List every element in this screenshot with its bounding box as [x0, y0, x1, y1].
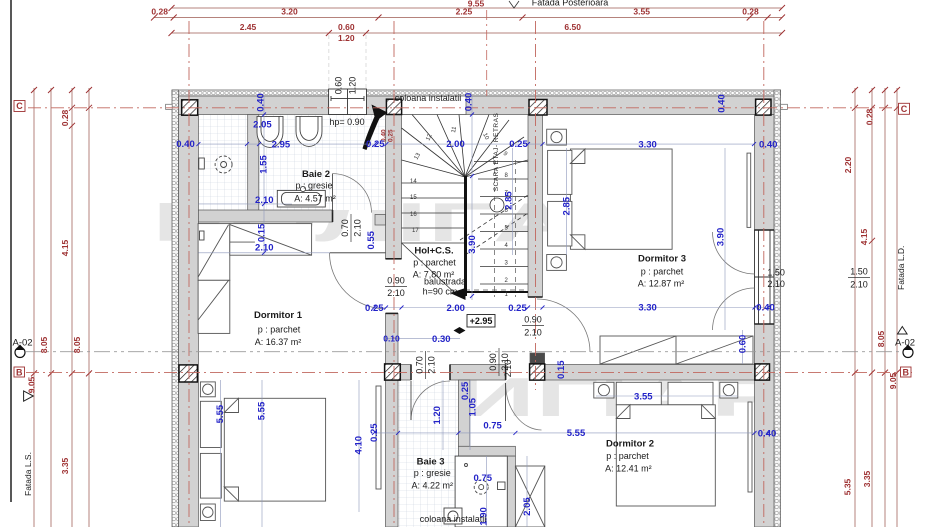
- svg-text:0.30: 0.30: [432, 334, 451, 345]
- svg-text:A-02: A-02: [895, 338, 915, 349]
- svg-text:1.20: 1.20: [432, 406, 443, 425]
- svg-text:Fatada L.D.: Fatada L.D.: [896, 246, 906, 290]
- svg-text:0.55: 0.55: [366, 230, 377, 249]
- svg-text:16: 16: [410, 212, 417, 218]
- svg-text:0.75: 0.75: [474, 473, 493, 484]
- svg-text:0.28: 0.28: [151, 7, 168, 17]
- svg-text:2.10: 2.10: [255, 195, 274, 206]
- svg-text:2.00: 2.00: [446, 139, 465, 150]
- svg-text:0.90: 0.90: [387, 276, 405, 286]
- svg-text:2.85: 2.85: [504, 191, 515, 210]
- svg-text:0.28: 0.28: [60, 109, 70, 126]
- svg-text:Hol+C.S.: Hol+C.S.: [414, 246, 453, 257]
- svg-text:1.05: 1.05: [468, 397, 479, 416]
- svg-text:0.70: 0.70: [415, 356, 425, 374]
- svg-text:A: 4.22 m²: A: 4.22 m²: [412, 480, 454, 490]
- svg-text:1.55: 1.55: [259, 155, 270, 174]
- svg-text:0.28: 0.28: [865, 108, 875, 125]
- svg-text:h=90 cm: h=90 cm: [423, 287, 458, 297]
- svg-text:0.15: 0.15: [257, 223, 268, 242]
- svg-text:0.25: 0.25: [365, 303, 384, 314]
- svg-text:0.25: 0.25: [388, 129, 395, 142]
- svg-text:5.55: 5.55: [567, 428, 586, 439]
- svg-text:3.30: 3.30: [638, 140, 657, 151]
- svg-text:Baie 3: Baie 3: [417, 457, 445, 468]
- svg-text:Dormitor 3: Dormitor 3: [638, 254, 686, 265]
- svg-text:2.10: 2.10: [387, 288, 405, 298]
- svg-text:14: 14: [410, 179, 417, 185]
- svg-text:p : parchet: p : parchet: [641, 267, 684, 277]
- svg-text:2.95: 2.95: [272, 140, 291, 151]
- svg-text:2.10: 2.10: [524, 328, 542, 338]
- svg-text:Dormitor 2: Dormitor 2: [606, 439, 654, 450]
- svg-text:2.10: 2.10: [503, 360, 513, 378]
- svg-text:5.35: 5.35: [843, 478, 853, 495]
- svg-text:6.50: 6.50: [564, 22, 581, 32]
- svg-text:0.15: 0.15: [556, 360, 567, 379]
- svg-text:0.25: 0.25: [366, 139, 385, 150]
- svg-text:2.00: 2.00: [446, 303, 465, 314]
- svg-text:2.05: 2.05: [253, 119, 272, 130]
- svg-text:Fatada L.S.: Fatada L.S.: [23, 452, 33, 496]
- svg-text:balustrada: balustrada: [424, 277, 466, 287]
- svg-text:9.05: 9.05: [27, 376, 37, 393]
- svg-text:p : gresie: p : gresie: [295, 180, 332, 190]
- svg-text:coloana instalatii: coloana instalatii: [395, 93, 462, 103]
- svg-text:p : gresie: p : gresie: [414, 468, 451, 478]
- svg-text:1.20: 1.20: [348, 77, 358, 95]
- svg-text:Dormitor 1: Dormitor 1: [254, 310, 303, 321]
- svg-text:2.45: 2.45: [240, 22, 257, 32]
- svg-text:0.10: 0.10: [383, 334, 400, 344]
- svg-text:0.60: 0.60: [338, 22, 355, 32]
- svg-text:4.10: 4.10: [354, 436, 365, 455]
- svg-text:0.25: 0.25: [508, 303, 527, 314]
- svg-text:p : parchet: p : parchet: [606, 451, 649, 461]
- svg-text:0.90: 0.90: [524, 315, 542, 325]
- svg-text:1.50: 1.50: [767, 268, 785, 278]
- svg-text:0.40: 0.40: [717, 94, 728, 113]
- svg-text:C: C: [16, 101, 23, 111]
- svg-text:2.10: 2.10: [353, 219, 363, 237]
- svg-text:2.10: 2.10: [255, 243, 274, 254]
- svg-text:2.05: 2.05: [522, 497, 533, 516]
- svg-text:1.20: 1.20: [338, 33, 355, 43]
- svg-text:8.05: 8.05: [876, 330, 886, 347]
- svg-text:0.60: 0.60: [737, 335, 748, 354]
- svg-text:A: 12.41 m²: A: 12.41 m²: [605, 463, 652, 473]
- svg-text:17: 17: [412, 228, 419, 234]
- svg-text:0.70: 0.70: [340, 219, 350, 237]
- svg-text:0.40: 0.40: [176, 139, 195, 150]
- svg-text:8.05: 8.05: [72, 336, 82, 353]
- svg-text:C: C: [901, 104, 908, 114]
- svg-text:A-02: A-02: [13, 338, 33, 349]
- svg-text:2.25: 2.25: [456, 7, 473, 17]
- svg-text:0.40: 0.40: [756, 303, 775, 314]
- svg-text:3.55: 3.55: [634, 391, 653, 402]
- svg-text:3.20: 3.20: [281, 7, 298, 17]
- svg-text:0.60: 0.60: [334, 77, 344, 95]
- svg-text:0.75: 0.75: [483, 421, 502, 432]
- svg-text:5.55: 5.55: [215, 404, 226, 423]
- svg-text:Baie 2: Baie 2: [302, 169, 330, 180]
- svg-text:3.35: 3.35: [862, 470, 872, 487]
- svg-text:4.15: 4.15: [60, 239, 70, 256]
- svg-text:3.35: 3.35: [60, 457, 70, 474]
- svg-text:3.55: 3.55: [633, 7, 650, 17]
- svg-text:B: B: [902, 367, 909, 377]
- svg-text:A: 16.37 m²: A: 16.37 m²: [255, 337, 302, 347]
- svg-text:Fatada Posterioara: Fatada Posterioara: [532, 0, 609, 8]
- svg-text:A: 4.57 m²: A: 4.57 m²: [294, 193, 336, 203]
- svg-text:coloana instalatii: coloana instalatii: [420, 514, 487, 524]
- svg-text:9.05: 9.05: [888, 372, 898, 389]
- svg-text:B: B: [16, 367, 23, 377]
- svg-text:0.25: 0.25: [460, 381, 471, 400]
- svg-text:0.40: 0.40: [256, 93, 267, 112]
- svg-text:0.28: 0.28: [742, 7, 759, 17]
- svg-text:4.15: 4.15: [859, 228, 869, 245]
- svg-text:2.10: 2.10: [427, 356, 437, 374]
- svg-text:A: 12.87 m²: A: 12.87 m²: [638, 279, 685, 289]
- svg-text:8.05: 8.05: [39, 336, 49, 353]
- svg-text:0.40: 0.40: [759, 140, 778, 151]
- svg-text:3.90: 3.90: [716, 228, 727, 247]
- svg-text:3.30: 3.30: [638, 303, 657, 314]
- svg-text:3.90: 3.90: [467, 235, 478, 254]
- svg-text:0.40: 0.40: [464, 93, 475, 112]
- svg-text:+2.95: +2.95: [470, 316, 493, 326]
- svg-text:15: 15: [410, 195, 417, 201]
- svg-text:2.10: 2.10: [850, 280, 868, 290]
- svg-text:p : parchet: p : parchet: [258, 325, 301, 335]
- svg-text:hp= 0.90: hp= 0.90: [329, 117, 364, 127]
- svg-text:1.50: 1.50: [850, 267, 868, 277]
- svg-text:5.55: 5.55: [257, 401, 268, 420]
- svg-text:2.10: 2.10: [767, 279, 785, 289]
- svg-text:0.25: 0.25: [509, 139, 528, 150]
- svg-text:2.20: 2.20: [843, 156, 853, 173]
- svg-text:SCARA ETAJ- RETRAS: SCARA ETAJ- RETRAS: [493, 113, 500, 192]
- svg-text:p : parchet: p : parchet: [413, 258, 456, 268]
- svg-text:0.90: 0.90: [488, 353, 498, 371]
- svg-text:2.85: 2.85: [561, 196, 572, 215]
